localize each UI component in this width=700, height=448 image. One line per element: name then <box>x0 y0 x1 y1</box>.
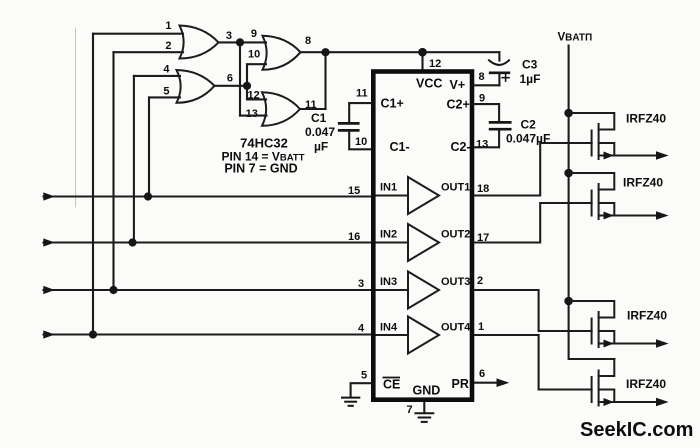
arrow input IN2 <box>43 238 55 246</box>
svg-text:17: 17 <box>477 232 489 244</box>
svg-text:12: 12 <box>429 58 441 70</box>
svg-text:C1: C1 <box>311 111 327 125</box>
wire OUT1 to Q1 gate <box>472 143 592 196</box>
node F junction dot (IN2) <box>128 238 136 246</box>
wire node 8 top rail <box>301 51 500 53</box>
svg-text:C2: C2 <box>521 118 537 132</box>
wire CE pin 5 to ground <box>351 383 374 396</box>
wire vertical IN1 to gate pin 5 <box>148 97 150 196</box>
arrow input IN1 <box>43 192 55 200</box>
node C junction dot (node 8) <box>321 48 329 56</box>
svg-text:11: 11 <box>305 99 317 111</box>
node G junction dot (IN3) <box>109 286 117 294</box>
svg-text:IN1: IN1 <box>380 182 397 194</box>
wire pin 9 C2+ <box>472 104 499 121</box>
svg-text:9: 9 <box>251 28 257 40</box>
svg-text:74HC32: 74HC32 <box>240 136 288 151</box>
ground symbol at CE <box>341 398 360 406</box>
svg-text:IRFZ40: IRFZ40 <box>626 112 666 126</box>
svg-text:8: 8 <box>479 71 485 83</box>
svg-text:2: 2 <box>165 40 171 52</box>
wire pin 11 C1+ <box>349 103 373 122</box>
wire IN1 inside IC <box>373 194 408 196</box>
svg-text:3: 3 <box>358 278 364 290</box>
arrow input IN3 <box>43 286 55 294</box>
node J junction dot (rail-Q2) <box>564 169 573 178</box>
wire OUT4 to Q4 gate <box>472 335 592 390</box>
svg-text:4: 4 <box>358 323 365 335</box>
wire pin 10 C1- <box>349 132 373 150</box>
wire vertical IN3 to gate pin 2 <box>112 52 114 290</box>
wire V+ pin 8 <box>472 84 499 86</box>
svg-text:7: 7 <box>407 404 413 416</box>
capacitor C2 plates <box>490 122 510 129</box>
capacitor C3 curved plate <box>489 60 509 65</box>
node B junction dot (node 6) <box>243 82 251 90</box>
svg-text:IN2: IN2 <box>380 229 397 241</box>
wire IN3 horizontal <box>44 289 374 291</box>
svg-text:13: 13 <box>476 139 488 151</box>
svg-text:C3: C3 <box>522 58 538 72</box>
capacitor C1 plates <box>339 123 358 130</box>
svg-text:IN3: IN3 <box>380 276 397 288</box>
svg-text:9: 9 <box>479 93 485 105</box>
node H junction dot (IN4) <box>89 330 97 338</box>
wire IN2 inside IC <box>373 241 408 243</box>
svg-text:IRFZ40: IRFZ40 <box>623 176 663 190</box>
svg-text:1: 1 <box>165 20 171 32</box>
svg-text:16: 16 <box>348 231 360 243</box>
svg-text:C2-: C2- <box>451 140 471 154</box>
svg-text:15: 15 <box>348 185 360 197</box>
capacitor C3 straight plate <box>490 71 509 74</box>
node I junction dot (rail-Q1) <box>564 109 573 118</box>
svg-text:PR: PR <box>452 377 469 391</box>
wire C3 top lead <box>498 52 500 60</box>
wire node 3 (gate output to pin 9) <box>219 41 267 43</box>
wire IN1 horizontal <box>44 195 374 197</box>
svg-text:IN4: IN4 <box>380 322 398 334</box>
svg-text:V+: V+ <box>450 78 466 92</box>
or-gate U1A pins 1,2 out 3 <box>180 26 219 59</box>
buffer driver 4 <box>408 317 439 354</box>
wire IN4 horizontal <box>44 333 374 335</box>
svg-text:4: 4 <box>163 64 170 76</box>
buffer driver 2 <box>408 224 439 261</box>
svg-text:11: 11 <box>356 88 368 100</box>
svg-text:OUT4: OUT4 <box>441 322 471 334</box>
wire node 11 (gate output) <box>300 108 326 110</box>
svg-text:OUT1: OUT1 <box>441 182 470 194</box>
or-gate U1C pins 9,10 out 8 <box>263 36 301 70</box>
wire PR pin 6 <box>472 382 498 384</box>
wire OUT3 to Q3 gate <box>472 290 592 331</box>
wire IN2 horizontal <box>44 241 374 243</box>
svg-text:10: 10 <box>355 136 367 148</box>
transistor Q3 IRFZ40 <box>569 301 657 347</box>
wire IN3 inside IC <box>373 289 408 291</box>
svg-text:OUT2: OUT2 <box>441 229 470 241</box>
wire gate pin 2 stub <box>114 51 184 53</box>
buffer driver 1 <box>408 177 439 214</box>
wire VBAT1 rail <box>569 46 615 360</box>
svg-text:IRFZ40: IRFZ40 <box>626 377 666 391</box>
svg-text:12: 12 <box>248 90 260 102</box>
svg-text:GND: GND <box>413 384 441 398</box>
wire node 3 vertical <box>239 42 241 115</box>
C3 plus sign <box>502 74 509 81</box>
wire node 8 to node 11 vertical <box>324 52 326 109</box>
buffer driver 3 <box>408 272 439 309</box>
svg-text:C2+: C2+ <box>447 98 470 112</box>
wire pin 13 C2- <box>472 130 499 147</box>
svg-text:3: 3 <box>226 30 232 42</box>
svg-text:CE: CE <box>383 378 400 392</box>
svg-text:6: 6 <box>227 73 233 85</box>
scan streak (faint) <box>75 28 77 207</box>
arrow input IN4 <box>43 330 55 338</box>
wire C3 bottom lead <box>498 73 500 85</box>
wire VCC pin 12 stub <box>421 52 423 71</box>
transistor Q1 IRFZ40 <box>569 113 657 159</box>
or-gate U1B pins 4,5 out 6 <box>177 70 215 103</box>
transistor Q4 IRFZ40 <box>592 359 657 406</box>
svg-text:C1-: C1- <box>390 140 410 154</box>
svg-text:0.047: 0.047 <box>305 125 335 139</box>
svg-text:8: 8 <box>305 35 311 47</box>
svg-text:5: 5 <box>163 86 169 98</box>
or-gate U1D pins 12,13 out 11 <box>262 92 300 126</box>
wire gate pin 4 stub <box>134 75 180 77</box>
svg-text:6: 6 <box>479 368 485 380</box>
svg-text:µF: µF <box>314 140 328 154</box>
wire node 6 down to pin 12 <box>247 86 266 100</box>
wire GND pin 7 stub <box>423 400 425 413</box>
wire node 6 up to pin 10 <box>247 64 266 86</box>
wire vertical IN2 to gate pin 4 <box>133 76 135 243</box>
svg-text:5: 5 <box>361 370 367 382</box>
wire gate pin 5 stub <box>149 96 180 98</box>
svg-text:C1+: C1+ <box>381 97 404 111</box>
node D junction dot (VCC) <box>418 48 427 57</box>
wire OUT2 to Q2 gate <box>472 203 592 243</box>
arrow PR output <box>497 378 510 387</box>
svg-text:10: 10 <box>248 49 260 61</box>
svg-text:SeekIC.com: SeekIC.com <box>580 419 693 441</box>
svg-text:VCC: VCC <box>416 77 442 91</box>
svg-text:OUT3: OUT3 <box>441 276 470 288</box>
wire vertical IN4 to gate pin 1 <box>92 34 94 335</box>
IC U2 body <box>373 72 472 400</box>
wire pin 13 <box>240 115 267 117</box>
svg-text:13: 13 <box>246 108 258 120</box>
svg-text:1: 1 <box>478 321 484 333</box>
svg-text:VBATΠ: VBATΠ <box>558 32 593 44</box>
svg-text:IRFZ40: IRFZ40 <box>627 309 667 323</box>
wire gate pin 1 stub <box>93 33 183 35</box>
svg-text:0.047µF: 0.047µF <box>506 132 550 146</box>
wire node 6 <box>215 85 248 87</box>
svg-text:PIN 7 = GND: PIN 7 = GND <box>224 162 297 176</box>
node E junction dot (IN1) <box>144 192 152 200</box>
svg-text:18: 18 <box>477 183 489 195</box>
node K junction dot (rail-Q3) <box>564 297 573 306</box>
node A junction dot (node 3) <box>236 38 244 46</box>
wire IN4 inside IC <box>373 334 408 336</box>
transistor Q2 IRFZ40 <box>569 173 657 219</box>
svg-text:1µF: 1µF <box>520 72 541 86</box>
ground symbol at GND pin 7 <box>415 413 435 422</box>
svg-text:2: 2 <box>477 275 483 287</box>
